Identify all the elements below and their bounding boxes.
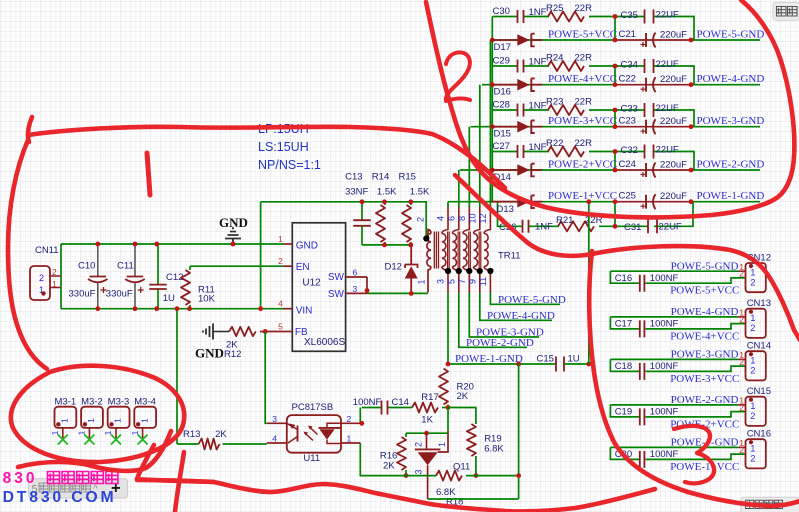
svg-text:22UF: 22UF (656, 10, 679, 21)
U11 pin 3 (267, 422, 287, 424)
svg-text:1: 1 (278, 234, 283, 244)
diode D12 (410, 245, 412, 265)
op-amp U11 PC817SB body (287, 415, 341, 453)
svg-text:PC817SB: PC817SB (292, 402, 334, 413)
svg-text:2: 2 (750, 277, 755, 287)
svg-text:1: 1 (750, 401, 755, 411)
capacitor C20 100NF (610, 447, 639, 459)
capacitor C19 100NF (610, 405, 639, 417)
transistor Q11 (TL431) (426, 433, 428, 449)
wire R17 node (362, 407, 382, 409)
svg-text:M3-2: M3-2 (81, 396, 103, 407)
svg-text:8: 8 (457, 216, 467, 221)
svg-text:D13: D13 (497, 204, 514, 215)
svg-text:R24: R24 (546, 53, 563, 64)
resistor R15 1.5K (410, 202, 412, 205)
pin 4 VIN (284, 308, 293, 310)
svg-text:220uF: 220uF (660, 74, 687, 85)
svg-text:1U: 1U (568, 354, 580, 365)
transformer secondary winding 2 (452, 234, 456, 267)
diode D13 (491, 201, 517, 203)
svg-text:6: 6 (446, 216, 456, 221)
svg-text:100NF: 100NF (650, 319, 679, 330)
wire output row 3 main (471, 126, 618, 128)
wire / net label POWE-5-GND (490, 293, 560, 305)
red annotation: numeral 4 (137, 445, 214, 482)
svg-text:POWE-1+VCC: POWE-1+VCC (670, 461, 739, 473)
svg-text:C35: C35 (621, 10, 638, 21)
svg-text:2: 2 (739, 445, 744, 455)
svg-text:C16: C16 (615, 273, 632, 284)
svg-text:2: 2 (750, 411, 755, 421)
svg-text:D16: D16 (494, 87, 511, 98)
diode D15 (491, 126, 517, 128)
svg-text:1: 1 (86, 418, 96, 423)
svg-text:1: 1 (750, 313, 755, 323)
wire snubber bottom rail (362, 244, 411, 246)
svg-text:7: 7 (457, 279, 467, 284)
capacitor C29 1NF (518, 60, 524, 73)
wire output row 5 snubber top (492, 16, 517, 18)
U11 LED (319, 427, 342, 429)
resistor R12 2K (213, 331, 229, 333)
resistor R14 1.5K (384, 202, 386, 205)
svg-text:M3-4: M3-4 (134, 396, 156, 407)
svg-text:C23: C23 (619, 116, 636, 127)
svg-text:4: 4 (278, 299, 283, 309)
capacitor C31 22UF (648, 219, 657, 233)
svg-text:C24: C24 (619, 159, 636, 170)
svg-text:3: 3 (436, 279, 446, 284)
svg-text:POWE-3-GND: POWE-3-GND (697, 115, 765, 127)
diode D14 (491, 169, 517, 171)
svg-text:1: 1 (52, 279, 57, 289)
wire output row 1 main (448, 201, 617, 203)
svg-text:POWE-1+VCC: POWE-1+VCC (548, 190, 617, 202)
capacitor C33 22UF (645, 103, 654, 117)
svg-text:POWE-2-GND: POWE-2-GND (466, 337, 534, 349)
capacitor C26 1NF (523, 220, 529, 233)
svg-text:C13: C13 (345, 172, 362, 183)
svg-text:22UF: 22UF (656, 103, 679, 114)
wire snubber-left vertical (rows 2-5) (491, 17, 493, 202)
svg-text:1: 1 (60, 418, 70, 423)
svg-text:POWE-4-GND: POWE-4-GND (697, 73, 765, 85)
svg-text:VIN: VIN (296, 306, 313, 317)
wire row 3 mid vertical (614, 110, 616, 127)
svg-text:C17: C17 (615, 319, 632, 330)
svg-text:R23: R23 (546, 97, 563, 108)
resistor R25 22R (548, 12, 584, 22)
resistor R17 1K (412, 403, 438, 413)
svg-text:2: 2 (739, 402, 744, 412)
transformer secondary winding 3 (463, 234, 467, 267)
capacitor C11 330uF (134, 244, 136, 277)
svg-text:2: 2 (414, 442, 424, 447)
red annotation: loop 2 (426, 0, 794, 217)
svg-text:4: 4 (272, 434, 277, 444)
wire VIN rail (61, 308, 284, 310)
svg-text:1NF: 1NF (529, 101, 547, 112)
svg-text:SW: SW (328, 289, 345, 300)
resistor R13 2K (177, 443, 199, 445)
wire / net label POWE-3-GND (469, 293, 539, 338)
wire R19 branch (448, 408, 476, 425)
svg-text:C21: C21 (619, 29, 636, 40)
svg-text:EN: EN (296, 262, 310, 273)
resistor R22 22R (548, 147, 584, 157)
svg-text:4: 4 (436, 216, 446, 221)
svg-text:C30: C30 (493, 6, 510, 17)
svg-text:M3-1: M3-1 (54, 396, 76, 407)
svg-text:330uF: 330uF (106, 289, 133, 300)
svg-text:POWE-1-GND: POWE-1-GND (455, 353, 523, 365)
svg-text:LS:15UH: LS:15UH (258, 140, 309, 154)
svg-text:2K: 2K (215, 429, 227, 440)
svg-text:POWE-4-GND: POWE-4-GND (487, 310, 555, 322)
svg-text:C28: C28 (493, 100, 510, 111)
pin 3 SW (346, 277, 367, 293)
U11 pin 1 (341, 442, 360, 444)
capacitor C17 100NF (610, 317, 639, 329)
wire POWE-5-GND (right) (610, 270, 738, 272)
wire row 1 snubber (below) (498, 202, 523, 227)
svg-text:1: 1 (417, 279, 427, 284)
ground symbol (left GND, rotated earth) (203, 324, 213, 340)
transformer polarity dots (423, 235, 429, 241)
resistor R11 10K (189, 266, 191, 270)
svg-text:R15: R15 (399, 172, 416, 183)
capacitor C13 33NF (361, 202, 363, 220)
wire / net label POWE-4-GND (480, 293, 552, 321)
svg-text:POWE-5-GND: POWE-5-GND (498, 294, 566, 306)
red annotation: region 1 outline top (28, 117, 32, 142)
svg-text:2: 2 (416, 217, 426, 222)
wire POWE-4-GND (right) (610, 316, 738, 318)
svg-text:2: 2 (739, 357, 744, 367)
transformer secondary winding 5 (484, 234, 488, 267)
svg-text:POWE-5+VCC: POWE-5+VCC (548, 29, 617, 41)
svg-text:C19: C19 (615, 407, 632, 418)
red annotation: numeral 3 (674, 426, 714, 484)
svg-text:1: 1 (347, 434, 352, 444)
resistor R21 22R (558, 221, 594, 231)
wire snubber top rail (261, 202, 427, 237)
svg-text:6.8K: 6.8K (484, 444, 504, 455)
transformer secondary winding 1 (442, 234, 446, 267)
svg-text:2: 2 (739, 314, 744, 324)
svg-text:POWE-4-GND: POWE-4-GND (671, 306, 739, 318)
svg-text:830: 830 (3, 470, 38, 487)
wire POWE-3-GND (right) (610, 358, 738, 360)
svg-text:R12: R12 (224, 349, 241, 360)
svg-text:D17: D17 (494, 42, 511, 53)
diode D17 (491, 39, 517, 41)
svg-text:CN11: CN11 (35, 245, 59, 256)
svg-text:6: 6 (353, 268, 358, 278)
svg-text:C31: C31 (624, 222, 641, 233)
capacitor C35 22UF (645, 10, 654, 24)
watermark line 1 (3, 470, 118, 487)
wire POWE-2-GND (right) (610, 404, 738, 406)
wire CN11 vertical bus (60, 244, 62, 309)
svg-text:POWE-2-GND: POWE-2-GND (697, 159, 765, 171)
red annotation: region 1 left edge (8, 140, 47, 369)
svg-text:22R: 22R (575, 97, 593, 108)
wire output row 5 main (492, 39, 617, 41)
wire U11 pin2 node (359, 408, 361, 424)
svg-text:C25: C25 (619, 191, 636, 202)
svg-text:C33: C33 (621, 104, 638, 115)
svg-text:100NF: 100NF (650, 449, 679, 460)
resistor R20 2K (439, 369, 448, 405)
transformer secondary winding 4 (474, 234, 478, 267)
svg-text:1NF: 1NF (529, 7, 547, 18)
svg-text:POWE-2-GND: POWE-2-GND (671, 394, 739, 406)
svg-text:22R: 22R (575, 3, 593, 14)
svg-text:100NF: 100NF (353, 397, 382, 408)
capacitor C32 22UF (645, 145, 654, 159)
svg-text:2: 2 (278, 256, 283, 266)
wire VIN-to-snubber riser (260, 202, 262, 309)
svg-text:D15: D15 (494, 129, 511, 140)
capacitor C14 100NF (382, 401, 388, 415)
svg-text:POWE-5-GND: POWE-5-GND (671, 260, 739, 272)
red annotation: oval tail curl (18, 431, 171, 471)
svg-text:C14: C14 (392, 397, 409, 408)
svg-text:100NF: 100NF (650, 361, 679, 372)
resistor R19 6.8K (467, 424, 476, 456)
svg-text:22UF: 22UF (656, 59, 679, 70)
svg-text:3: 3 (414, 469, 424, 474)
svg-text:100NF: 100NF (650, 407, 679, 418)
svg-text:1: 1 (750, 444, 755, 454)
svg-text:2: 2 (52, 267, 57, 277)
transformer core (434, 232, 438, 269)
svg-text:100NF: 100NF (650, 273, 679, 284)
svg-text:10K: 10K (198, 294, 216, 305)
transformer TR11 (427, 234, 431, 267)
svg-text:2: 2 (750, 366, 755, 376)
capacitor C30 1NF (518, 10, 524, 23)
svg-text:CN13: CN13 (747, 298, 771, 309)
svg-text:POWE-5-GND: POWE-5-GND (697, 29, 765, 41)
svg-text:33NF: 33NF (345, 187, 368, 198)
svg-text:CN14: CN14 (747, 341, 771, 352)
svg-text:9: 9 (467, 279, 477, 284)
svg-text:1: 1 (139, 418, 149, 423)
capacitor C28 1NF (518, 104, 524, 117)
wire output row 4 snubber top (492, 65, 517, 67)
svg-text:POWE-1-GND: POWE-1-GND (697, 190, 765, 202)
svg-text:1NF: 1NF (535, 221, 553, 232)
svg-text:R21: R21 (556, 215, 573, 226)
svg-text:POWE-4+VCC: POWE-4+VCC (670, 330, 739, 342)
wire FB-to-U11 drop (265, 332, 267, 424)
capacitor C16 100NF (610, 271, 639, 283)
svg-text:C10: C10 (78, 261, 95, 272)
svg-text:CN15: CN15 (747, 386, 771, 397)
svg-text:2: 2 (739, 269, 744, 279)
red annotation: bottom sweep (137, 480, 655, 511)
U11 pin 4 (267, 442, 287, 444)
svg-text:22UF: 22UF (656, 145, 679, 156)
svg-text:R22: R22 (546, 138, 563, 149)
wire VIN-to-R13 drop (176, 309, 178, 444)
svg-text:R13: R13 (183, 429, 200, 440)
capacitor C34 22UF (645, 59, 654, 73)
svg-text:DT830.COM: DT830.COM (3, 489, 117, 506)
svg-text:C32: C32 (621, 145, 638, 156)
svg-text:POWE-3+VCC: POWE-3+VCC (670, 373, 739, 385)
wire bottom gnd run (360, 443, 436, 476)
resistor R18 6.8K (436, 471, 462, 481)
svg-text:5: 5 (278, 322, 283, 332)
svg-text:2: 2 (750, 323, 755, 333)
svg-text:2: 2 (39, 273, 44, 283)
wire row 4 mid vertical (614, 66, 616, 85)
svg-text:U12: U12 (302, 278, 321, 289)
resistor R23 22R (548, 105, 584, 115)
wire SW node (367, 292, 428, 294)
resistor R16 2K (405, 433, 407, 437)
svg-text:1K: 1K (421, 415, 433, 426)
red annotation: numeral 2 (446, 52, 470, 101)
svg-text:C15: C15 (537, 354, 554, 365)
op-amp U12 XL6006S body (292, 223, 345, 351)
wire output row 2 main (460, 169, 617, 171)
svg-text:330uF: 330uF (69, 289, 96, 300)
svg-text:2: 2 (750, 454, 755, 464)
wire / net label POWE-2-GND (459, 293, 527, 348)
capacitor C12 1U (157, 244, 159, 285)
svg-text:U11: U11 (303, 453, 320, 464)
capacitor C15 1U (556, 357, 564, 372)
wire EN net (190, 265, 284, 267)
svg-text:GND: GND (195, 346, 224, 361)
svg-text:1.5K: 1.5K (377, 187, 397, 198)
svg-text:CN16: CN16 (747, 429, 771, 440)
svg-text:11: 11 (478, 277, 488, 286)
ground symbol (top GND) (225, 228, 241, 244)
svg-text:POWE-3-GND: POWE-3-GND (671, 349, 739, 361)
svg-text:C34: C34 (621, 60, 638, 71)
svg-text:1.5K: 1.5K (410, 187, 430, 198)
diode D16 (491, 84, 517, 86)
svg-text:2: 2 (347, 414, 352, 424)
U11 pin 2 (341, 422, 360, 424)
svg-text:XL6006S: XL6006S (304, 337, 345, 348)
svg-text:C11: C11 (117, 261, 134, 272)
svg-text:POWE-4+VCC: POWE-4+VCC (548, 73, 617, 85)
wire output row 3 snubber top (492, 109, 517, 111)
svg-text:2K: 2K (457, 391, 469, 402)
svg-text:NP/NS=1:1: NP/NS=1:1 (258, 158, 321, 172)
svg-text:SW: SW (328, 272, 345, 283)
wire output row 4 main (482, 84, 617, 86)
wire Q11 anode loop (428, 498, 519, 500)
svg-text:R25: R25 (546, 3, 563, 14)
wire secondary bus verticals (447, 202, 449, 207)
resistor R24 22R (548, 61, 584, 71)
svg-text:POWE-2+VCC: POWE-2+VCC (548, 159, 617, 171)
svg-text:C27: C27 (493, 141, 510, 152)
svg-text:1: 1 (750, 267, 755, 277)
capacitor C27 1NF (518, 145, 524, 158)
pin 6 SW (346, 276, 367, 278)
svg-text:22R: 22R (575, 53, 593, 64)
wire row 5 mid vertical (614, 17, 616, 41)
svg-text:1NF: 1NF (529, 57, 547, 68)
wire R16 top (406, 432, 448, 434)
red annotation: loop 3 with diagonal tail (455, 175, 799, 340)
svg-text:M3-3: M3-3 (108, 396, 130, 407)
svg-text:POWE-3+VCC: POWE-3+VCC (548, 115, 617, 127)
svg-text:TR11: TR11 (498, 251, 521, 262)
svg-text:POWE-5+VCC: POWE-5+VCC (670, 285, 739, 297)
wire output row 2 snubber top (492, 151, 517, 153)
svg-text:12: 12 (478, 213, 488, 223)
UI panel (bottom-right) (741, 497, 799, 512)
svg-text:220uF: 220uF (660, 160, 687, 171)
UI panel (top-right) (773, 3, 799, 21)
UI popup (bottom-left) (29, 479, 128, 499)
svg-text:3: 3 (353, 284, 358, 294)
wire GND rail (61, 243, 284, 245)
wire GND1 long riser (518, 364, 520, 499)
svg-text:220uF: 220uF (660, 116, 687, 127)
svg-text:2K: 2K (383, 461, 395, 472)
U11 arrows (305, 427, 318, 441)
wire Q11 ref (447, 408, 449, 432)
svg-text:10: 10 (467, 213, 477, 223)
connector CN11 (30, 266, 50, 300)
svg-text:C22: C22 (619, 74, 636, 85)
U11 phototransistor (297, 426, 299, 442)
svg-text:C29: C29 (493, 56, 510, 67)
svg-text:1: 1 (750, 356, 755, 366)
capacitor C10 330uF (97, 244, 99, 277)
svg-text:220uF: 220uF (660, 30, 687, 41)
pin 5 FB (284, 331, 293, 333)
svg-text:C18: C18 (615, 361, 632, 372)
svg-text:5: 5 (446, 279, 456, 284)
svg-text:220uF: 220uF (660, 191, 687, 202)
capacitor C18 100NF (610, 359, 639, 371)
svg-text:R17: R17 (421, 392, 438, 403)
red annotation: M3 oval (11, 366, 184, 462)
pin 2 EN (284, 265, 293, 267)
wire / net label POWE-1-GND (mid) (448, 293, 556, 365)
red annotation: numeral 1 (147, 153, 150, 195)
svg-text:D12: D12 (385, 262, 402, 273)
svg-text:GND: GND (219, 215, 248, 230)
svg-text:1: 1 (437, 442, 447, 447)
wire VCC1 long riser (588, 202, 590, 364)
wire row 1 mid vertical (614, 202, 616, 227)
svg-text:1U: 1U (163, 293, 175, 304)
wire row 2 mid vertical (614, 152, 616, 171)
svg-text:3: 3 (272, 414, 277, 424)
svg-text:GND: GND (296, 241, 318, 252)
pin 1 GND (284, 243, 293, 245)
svg-text:R14: R14 (372, 172, 389, 183)
wire POWE-1-GND (right) (610, 446, 738, 448)
svg-text:1: 1 (113, 418, 123, 423)
svg-text:1NF: 1NF (529, 142, 547, 153)
svg-text:22R: 22R (575, 138, 593, 149)
svg-text:22UF: 22UF (659, 221, 682, 232)
